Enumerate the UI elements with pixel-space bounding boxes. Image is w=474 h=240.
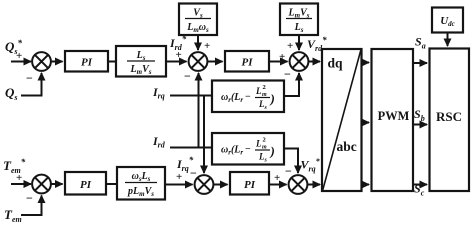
svg-text:): ) — [270, 91, 275, 106]
wire Qs feedback — [21, 73, 42, 96]
svg-text:L: L — [255, 139, 262, 149]
svg-text:abc: abc — [337, 139, 357, 154]
svg-text:−: − — [184, 69, 191, 83]
summing junction J6 — [289, 175, 308, 194]
svg-text:PI: PI — [244, 179, 256, 191]
wire Tem feedback — [21, 196, 42, 216]
wire Irq branch down to J5 — [203, 96, 205, 174]
wire Irq into wr block1 — [170, 95, 212, 97]
wire Tem* input arrow — [11, 183, 31, 185]
wire J2 to PI2 — [208, 61, 223, 63]
svg-text:ωr(Lr: ωr(Lr — [221, 145, 243, 157]
wire Ird into wr block2 — [170, 147, 212, 149]
svg-text:−: − — [245, 144, 251, 155]
svg-text:): ) — [270, 144, 275, 159]
wire Ird branch up to J2 — [198, 73, 200, 148]
svg-text:−: − — [285, 164, 292, 178]
wire dq to PWM bottom — [362, 184, 370, 186]
wire dq to PWM top — [362, 62, 370, 64]
wire PWM to RSC middle — [413, 124, 427, 126]
wire Udc down to RSC — [447, 33, 449, 47]
summing junction J5 — [195, 175, 214, 194]
block PI2 — [225, 51, 269, 72]
summing junction J2 — [189, 52, 208, 71]
block dq/abc transform — [322, 49, 362, 191]
wire PWM to RSC top — [413, 62, 427, 64]
svg-text:−: − — [190, 166, 197, 180]
wire Vs/(Lm ws) down to J2 — [197, 35, 199, 50]
svg-text:PI: PI — [80, 179, 92, 191]
wire wr block1 output up to J3 — [284, 73, 299, 96]
svg-text:2: 2 — [263, 84, 266, 91]
block Udc — [432, 8, 463, 33]
svg-text:+: + — [16, 50, 22, 62]
wire Ls/(LmVs) to J2 — [166, 61, 187, 63]
svg-text:PI: PI — [242, 57, 254, 69]
wire J6 to dq block — [307, 184, 320, 186]
block LmVs/Ls — [280, 4, 318, 36]
wire J5 to PI4 — [214, 184, 228, 186]
wire J4 to PI3 — [51, 183, 63, 185]
block PI3 — [65, 172, 106, 195]
wire PWM to RSC bottom — [413, 184, 427, 186]
svg-text:+: + — [287, 40, 293, 52]
svg-text:dq: dq — [328, 56, 344, 71]
svg-text:+: + — [176, 171, 182, 183]
svg-text:+: + — [279, 51, 285, 63]
wire J1 to PI1 — [51, 61, 63, 63]
svg-text:+: + — [16, 172, 22, 184]
svg-text:−: − — [26, 71, 33, 85]
block PWM — [372, 49, 414, 191]
svg-text:+: + — [274, 172, 280, 184]
summing junction J3 — [290, 52, 309, 71]
wire PI2 to J3 — [269, 61, 288, 63]
block Vs/(Lm ws) — [179, 4, 217, 36]
svg-text:L: L — [255, 86, 262, 96]
summing junction J4 — [32, 175, 51, 194]
block Ls/(LmVs) — [116, 46, 166, 77]
svg-text:PWM: PWM — [378, 109, 410, 123]
svg-text:ωr(Lr: ωr(Lr — [221, 92, 243, 104]
block wsLs/(pLmVs) — [117, 167, 165, 200]
svg-text:+: + — [204, 40, 210, 52]
block PI1 — [65, 51, 108, 72]
block PI4 — [230, 172, 269, 195]
svg-text:RSC: RSC — [436, 109, 462, 124]
wire Qs* input arrow — [11, 61, 31, 63]
svg-text:2: 2 — [263, 137, 266, 144]
wire wsLs/(pLmVs) to J5 — [165, 184, 193, 186]
svg-text:−: − — [26, 191, 33, 205]
block wr(Lr-Lm2/Ls) upper — [212, 81, 284, 113]
wire J3 to dq block — [308, 61, 320, 63]
block wr(Lr-Lm2/Ls) lower — [212, 133, 284, 165]
svg-text:−: − — [284, 67, 291, 81]
wire dq to PWM middle — [362, 122, 370, 124]
wire LmVs/Ls down to J3 — [298, 35, 300, 50]
svg-text:PI: PI — [81, 57, 93, 69]
wire PI1 to Ls/(LmVs) — [108, 61, 116, 63]
svg-text:−: − — [245, 92, 251, 103]
svg-text:+: + — [176, 49, 182, 61]
wire PI3 to wsLs/(pLmVs) — [106, 183, 117, 185]
wire PI4 to J6 — [269, 184, 287, 186]
wire wr block2 output down to J6 — [284, 149, 298, 174]
summing junction J1 — [32, 52, 51, 71]
block RSC — [430, 49, 470, 192]
